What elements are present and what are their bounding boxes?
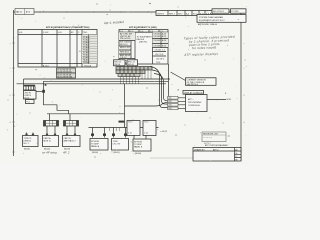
svg-text:PANEL A: PANEL A bbox=[91, 145, 100, 148]
center block middle cell bbox=[137, 37, 153, 44]
box B2 bbox=[43, 136, 59, 147]
svg-text:⇐ W-12: ⇐ W-12 bbox=[160, 130, 168, 133]
title cell B top-right corner bbox=[231, 9, 247, 13]
connector strip 1 bbox=[44, 121, 59, 127]
svg-text:CH. 2TV: CH. 2TV bbox=[113, 143, 121, 145]
svg-text:PNL 04 116: PNL 04 116 bbox=[120, 38, 131, 40]
box B3 label bbox=[63, 149, 70, 155]
svg-text:(W-01): (W-01) bbox=[24, 149, 30, 151]
svg-text:NO. 1: NO. 1 bbox=[24, 143, 30, 145]
svg-text:CONSOLE A: CONSOLE A bbox=[188, 104, 200, 107]
frame top border bbox=[14, 11, 242, 13]
box B4 label bbox=[92, 152, 98, 154]
svg-text:DISPLAY CONSOLE: DISPLAY CONSOLE bbox=[184, 91, 203, 94]
heading above center block bbox=[129, 26, 157, 29]
svg-text:CN 4 E 2: CN 4 E 2 bbox=[156, 58, 165, 60]
svg-text:R1 R2 R3: R1 R2 R3 bbox=[203, 137, 213, 139]
box B1 bbox=[23, 136, 39, 147]
left lower small box bbox=[26, 100, 35, 104]
connector blobs above bottom boxes bbox=[91, 134, 127, 136]
svg-text:MON 18: MON 18 bbox=[120, 44, 128, 46]
left table pin list column bbox=[82, 35, 97, 65]
center block right cells bbox=[153, 32, 169, 64]
box B5 label bbox=[114, 152, 120, 154]
svg-text:CN 104: CN 104 bbox=[154, 45, 162, 47]
register box right bbox=[202, 132, 230, 145]
display console title box bbox=[183, 91, 204, 95]
annotation box (current version) bbox=[186, 78, 217, 86]
wire stubs above box B1 bbox=[25, 133, 34, 136]
box B1 label bbox=[24, 149, 30, 151]
wire bus2 drop to lower run (staircase) bbox=[44, 81, 69, 114]
svg-text:CN 2 D 8: CN 2 D 8 bbox=[155, 54, 164, 56]
wire display output right bbox=[207, 99, 232, 101]
handwritten note block right bbox=[183, 35, 236, 57]
center block bottom connector combs bbox=[116, 67, 152, 77]
svg-text:S I-02: S I-02 bbox=[43, 32, 49, 34]
node label A above console bbox=[178, 88, 180, 91]
box B4 bbox=[90, 139, 108, 151]
tall box TB1 bbox=[127, 121, 140, 136]
svg-text:ATP SYSTEM DIAGRAM: ATP SYSTEM DIAGRAM bbox=[205, 144, 228, 147]
center block sub-box left jut 2 bbox=[127, 60, 138, 66]
left equipment table bbox=[18, 30, 97, 68]
bottom-right title block bbox=[193, 148, 241, 162]
wire diagonal to annotation bbox=[171, 72, 186, 81]
left lower connector comb bbox=[24, 85, 36, 90]
svg-text:ATP EQUIPMENT RACK (TRANSMITTI: ATP EQUIPMENT RACK (TRANSMITTING) bbox=[46, 26, 90, 29]
svg-text:B6 B7 B8 B9 BA: B6 B7 B8 B9 BA bbox=[57, 75, 72, 78]
svg-text:CN 105 C 2: CN 105 C 2 bbox=[155, 50, 166, 52]
left lower box (2nd floor unit) bbox=[24, 91, 37, 100]
svg-text:A 12-6: A 12-6 bbox=[43, 65, 50, 68]
svg-text:MOD 2 C4: MOD 2 C4 bbox=[120, 47, 130, 49]
wire bus1 drop left bbox=[23, 79, 25, 86]
svg-text:for notes issued: for notes issued bbox=[192, 45, 216, 50]
svg-text:SW 04: SW 04 bbox=[114, 64, 121, 66]
svg-text:MON 11: MON 11 bbox=[44, 140, 52, 142]
title strip top-right (divided cells) bbox=[156, 11, 212, 16]
svg-text:PROCESSING: PROCESSING bbox=[188, 102, 202, 104]
svg-text:REV 1: REV 1 bbox=[169, 13, 176, 15]
svg-text:TB 22-8: TB 22-8 bbox=[84, 66, 92, 68]
svg-text:on 4F wing: on 4F wing bbox=[42, 151, 57, 155]
zone tick marks top border bbox=[40, 11, 148, 13]
svg-text:REG 8 D1: REG 8 D1 bbox=[120, 52, 130, 54]
box B3 bbox=[63, 136, 81, 147]
svg-text:ATP-2: ATP-2 bbox=[213, 149, 219, 152]
display console wire bundle bbox=[150, 64, 170, 108]
svg-text:DESK A: DESK A bbox=[24, 139, 32, 142]
title block caption bbox=[205, 144, 228, 147]
wire drops B4 B5 stubs bbox=[93, 128, 147, 139]
svg-text:P 17/24: P 17/24 bbox=[232, 11, 240, 13]
svg-text:ATP: ATP bbox=[188, 98, 192, 101]
wire vertical x124.5 bbox=[119, 84, 125, 128]
scan speckles bbox=[8, 3, 246, 158]
center block sub-box left jut 1 bbox=[114, 60, 126, 66]
display console main box bbox=[186, 95, 208, 112]
svg-text:CATV B: CATV B bbox=[64, 137, 72, 140]
svg-text:DRAWN BY: DRAWN BY bbox=[194, 149, 205, 152]
zone tick marks left border bbox=[12, 43, 15, 152]
svg-text:NO 4172-01: NO 4172-01 bbox=[213, 11, 225, 13]
wire upper run to console stubs bbox=[125, 102, 168, 106]
svg-text:ATP EQUIPMENT TV (2ND): ATP EQUIPMENT TV (2ND) bbox=[129, 26, 157, 29]
svg-text:SEE NOTE 4: SEE NOTE 4 bbox=[187, 84, 200, 86]
svg-text:EQUIPMENT LAYOUT NO.2: EQUIPMENT LAYOUT NO.2 bbox=[199, 19, 225, 22]
box B2 label bbox=[42, 149, 57, 155]
svg-text:(W-06): (W-06) bbox=[135, 153, 141, 155]
tall box TB2 bbox=[143, 121, 156, 136]
wire drops to strips bbox=[50, 114, 70, 121]
title main box top-right bbox=[197, 15, 246, 23]
bus line 3 bbox=[17, 83, 167, 85]
svg-text:(W-04): (W-04) bbox=[92, 152, 98, 154]
svg-text:(2ND FL): (2ND FL) bbox=[139, 42, 148, 44]
svg-text:SYSTEM PLAN DIAGRAM: SYSTEM PLAN DIAGRAM bbox=[199, 16, 223, 19]
title sub row top-right bbox=[198, 23, 218, 26]
handwritten note top-center bbox=[103, 20, 124, 25]
svg-text:APPROVED 1988-04: APPROVED 1988-04 bbox=[198, 23, 218, 26]
photocopy noise bbox=[7, 5, 247, 162]
center block left cells bbox=[119, 32, 135, 64]
bus line 2 bbox=[44, 80, 169, 82]
heading above left table bbox=[46, 26, 90, 29]
display console input stubs bbox=[168, 97, 186, 111]
frame right border bbox=[240, 9, 242, 161]
svg-text:REGISTER LIST: REGISTER LIST bbox=[203, 134, 219, 136]
svg-text:PB A20: PB A20 bbox=[83, 61, 91, 64]
svg-text:DWG N: DWG N bbox=[157, 13, 164, 15]
frame bottom border (faint partial) bbox=[150, 157, 196, 159]
connector strip 2 bbox=[64, 121, 79, 127]
svg-text:CN 103: CN 103 bbox=[154, 40, 162, 42]
svg-text:(W-05): (W-05) bbox=[114, 152, 120, 154]
title stamp box top-left bbox=[15, 9, 34, 15]
note W arrow right of tall boxes bbox=[160, 130, 168, 133]
svg-text:AMP RACK 2: AMP RACK 2 bbox=[64, 139, 77, 142]
wires strips to boxes B2 B3 bbox=[46, 126, 76, 136]
frame left border bbox=[13, 10, 15, 156]
wire horizontal distribution run bbox=[47, 113, 125, 115]
svg-text:CTL 12: CTL 12 bbox=[120, 57, 127, 59]
zone letters outside borders bbox=[10, 43, 246, 124]
title cell A top-right bbox=[212, 9, 229, 13]
bus line lower (second distribution) bbox=[89, 127, 159, 129]
center equipment block bbox=[119, 32, 168, 64]
wires comb to bus verticals bbox=[121, 70, 152, 84]
wire stub cluster link bbox=[36, 84, 46, 93]
bus line 1 bbox=[24, 78, 171, 80]
box B5 bbox=[112, 139, 129, 151]
left table lower terminal boxes bbox=[57, 68, 76, 78]
box B6 label bbox=[135, 153, 141, 155]
svg-text:PANEL B: PANEL B bbox=[134, 146, 143, 149]
svg-text:4F. 2: 4F. 2 bbox=[63, 151, 70, 155]
center block header strip bbox=[119, 30, 168, 33]
svg-text:CATV A: CATV A bbox=[44, 137, 52, 140]
svg-text:SW 06: SW 06 bbox=[128, 64, 135, 66]
svg-text:B1 B2 B3 B4 B5: B1 B2 B3 B4 B5 bbox=[57, 71, 72, 73]
box B6 bbox=[133, 139, 151, 151]
svg-text:CN 102: CN 102 bbox=[154, 36, 162, 38]
